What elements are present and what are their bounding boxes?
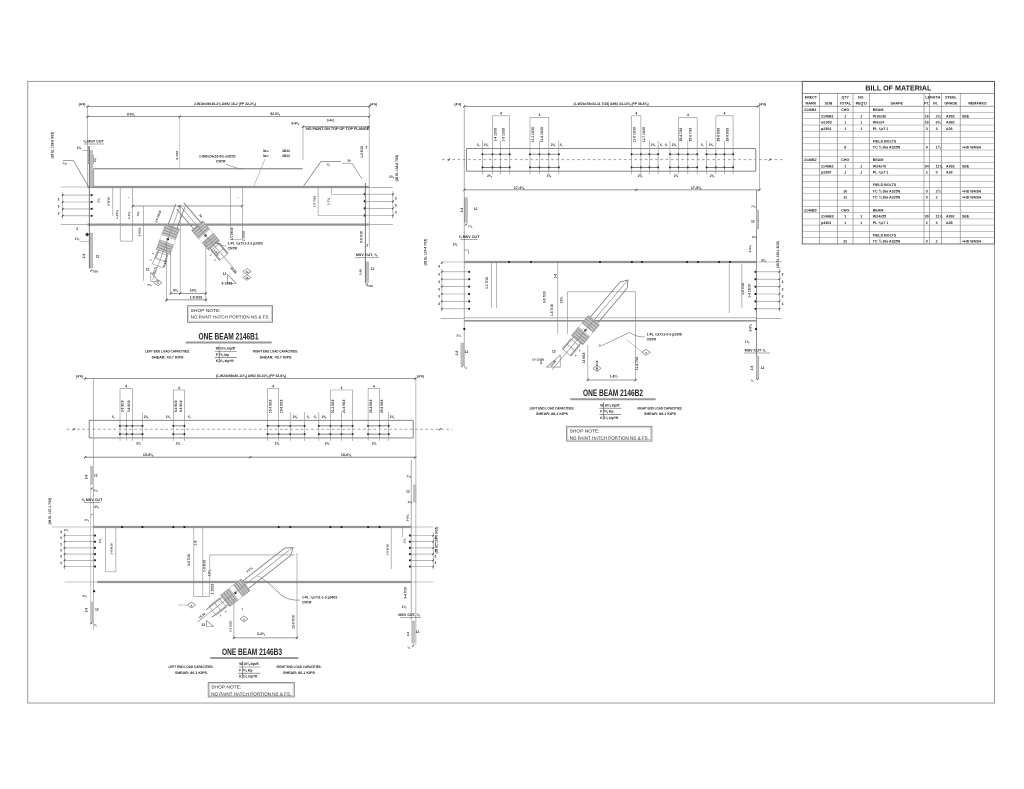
svg-text:15-2 9/16: 15-2 9/16 bbox=[269, 399, 273, 413]
svg-text:⅜ MSV CUT: ⅜ MSV CUT bbox=[82, 498, 103, 502]
svg-text:25-6 7/16: 25-6 7/16 bbox=[689, 128, 693, 142]
svg-text:3-8 9/16: 3-8 9/16 bbox=[127, 400, 131, 412]
svg-text:2⅜: 2⅜ bbox=[761, 259, 766, 263]
svg-text:BILL OF MATERIAL: BILL OF MATERIAL bbox=[865, 83, 931, 92]
svg-text:7/16: 7/16 bbox=[92, 270, 98, 274]
svg-text:2146B3: 2146B3 bbox=[821, 215, 834, 219]
svg-text:⅜ MSV CUT: ⅜ MSV CUT bbox=[459, 235, 480, 239]
svg-text:12: 12 bbox=[223, 272, 227, 276]
svg-text:(39 EL 136-1 9/16): (39 EL 136-1 9/16) bbox=[776, 241, 780, 268]
svg-text:1: 1 bbox=[844, 164, 846, 168]
svg-text:7⅜: 7⅜ bbox=[93, 489, 98, 493]
svg-text:SHEAR: 86.1 KIPS: SHEAR: 86.1 KIPS bbox=[175, 671, 208, 675]
svg-text:2 15/16: 2 15/16 bbox=[211, 583, 215, 594]
svg-text:b: b bbox=[243, 617, 245, 621]
svg-text:1: 1 bbox=[860, 171, 862, 175]
svg-text:TOTAL: TOTAL bbox=[839, 101, 851, 105]
svg-text:TC ¾ Dia A325N: TC ¾ Dia A325N bbox=[873, 196, 901, 200]
svg-text:2: 2 bbox=[936, 196, 938, 200]
svg-text:29-9 9/16: 29-9 9/16 bbox=[726, 128, 730, 142]
svg-text:21-6 9/16: 21-6 9/16 bbox=[342, 399, 346, 413]
svg-text:2⅜: 2⅜ bbox=[94, 505, 99, 509]
svg-text:4: 4 bbox=[687, 113, 689, 117]
svg-text:CHG: CHG bbox=[841, 108, 849, 112]
svg-text:2: 2 bbox=[936, 240, 938, 244]
svg-text:⅝: ⅝ bbox=[660, 143, 663, 147]
svg-text:ERECT: ERECT bbox=[805, 96, 818, 100]
svg-text:2146B2: 2146B2 bbox=[804, 158, 817, 162]
svg-text:2-6: 2-6 bbox=[750, 365, 754, 370]
svg-text:A992: A992 bbox=[946, 121, 955, 125]
svg-text:LEFT END LOAD CAPACITIES:: LEFT END LOAD CAPACITIES: bbox=[169, 665, 214, 669]
svg-text:2-2⅜: 2-2⅜ bbox=[257, 632, 266, 636]
svg-text:1: 1 bbox=[844, 114, 846, 118]
svg-text:2⅜: 2⅜ bbox=[672, 143, 677, 147]
svg-text:SHOP NOTE:: SHOP NOTE: bbox=[211, 685, 241, 691]
svg-text:SHOP NOTE:: SHOP NOTE: bbox=[570, 429, 600, 435]
svg-text:16: 16 bbox=[925, 121, 929, 125]
svg-text:⅝: ⅝ bbox=[307, 415, 310, 419]
svg-text:12: 12 bbox=[201, 623, 205, 627]
svg-text:F 7⅜ kip: F 7⅜ kip bbox=[600, 410, 613, 414]
svg-text:1-6: 1-6 bbox=[194, 540, 198, 545]
svg-text:1-0 9/16: 1-0 9/16 bbox=[386, 544, 390, 556]
svg-text:6 9/16: 6 9/16 bbox=[138, 227, 142, 236]
svg-text:W6x24: W6x24 bbox=[873, 121, 884, 125]
svg-text:11-7 13/16: 11-7 13/16 bbox=[642, 127, 646, 142]
svg-text:SHEAR: 43.7 KIPS: SHEAR: 43.7 KIPS bbox=[152, 355, 185, 359]
svg-text:MSV CUT, ⅜: MSV CUT, ⅜ bbox=[398, 613, 420, 617]
svg-text:2⅜: 2⅜ bbox=[64, 528, 69, 532]
svg-text:1⅜: 1⅜ bbox=[77, 146, 82, 150]
svg-text:4: 4 bbox=[724, 112, 726, 116]
svg-text:2: 2 bbox=[926, 221, 928, 225]
svg-text:(38 EL 128-0 9/16): (38 EL 128-0 9/16) bbox=[435, 527, 439, 554]
svg-text:3-6 9/16: 3-6 9/16 bbox=[121, 400, 125, 412]
svg-text:12: 12 bbox=[95, 608, 99, 612]
svg-text:SHEAR: 88.1 KIPS: SHEAR: 88.1 KIPS bbox=[644, 412, 677, 416]
svg-text:BEAM: BEAM bbox=[873, 108, 884, 112]
svg-text:1-0 13/16: 1-0 13/16 bbox=[748, 284, 752, 298]
svg-text:NO PAINT HATCH PORTION NS & FS: NO PAINT HATCH PORTION NS & FS. bbox=[191, 315, 270, 321]
svg-text:2⅜: 2⅜ bbox=[403, 538, 407, 543]
svg-text:3: 3 bbox=[438, 273, 440, 277]
svg-text:3: 3 bbox=[782, 287, 784, 291]
svg-text:15-5⅜: 15-5⅜ bbox=[143, 453, 154, 457]
svg-text:12: 12 bbox=[416, 630, 420, 634]
svg-text:12: 12 bbox=[94, 474, 98, 478]
svg-text:3: 3 bbox=[782, 273, 784, 277]
svg-text:ONE BEAM 2146B2: ONE BEAM 2146B2 bbox=[583, 388, 643, 398]
svg-text:2-6: 2-6 bbox=[82, 253, 86, 258]
svg-text:7⅜: 7⅜ bbox=[147, 283, 152, 287]
svg-text:SHAPE: SHAPE bbox=[891, 101, 904, 105]
svg-text:12: 12 bbox=[371, 267, 375, 271]
svg-text:A992: A992 bbox=[946, 164, 955, 168]
svg-text:2⅜: 2⅜ bbox=[275, 442, 280, 446]
svg-text:3: 3 bbox=[782, 295, 784, 299]
svg-text:4: 4 bbox=[635, 112, 637, 116]
svg-text:3⅝: 3⅝ bbox=[136, 211, 140, 216]
svg-text:1⅜: 1⅜ bbox=[402, 605, 407, 609]
svg-text:12: 12 bbox=[751, 220, 755, 224]
svg-text:1: 1 bbox=[860, 221, 862, 225]
svg-text:3: 3 bbox=[435, 561, 437, 565]
svg-text:1: 1 bbox=[860, 114, 862, 118]
svg-text:2⅜: 2⅜ bbox=[293, 415, 298, 419]
svg-text:1: 1 bbox=[844, 215, 846, 219]
svg-text:26: 26 bbox=[843, 190, 847, 194]
svg-text:2-6: 2-6 bbox=[406, 631, 410, 636]
svg-text:7/16: 7/16 bbox=[367, 284, 373, 288]
svg-text:2⅜: 2⅜ bbox=[547, 174, 552, 178]
svg-text:2⅜: 2⅜ bbox=[551, 143, 556, 147]
svg-text:1-PL ⅜x7x1-2-3 p2303: 1-PL ⅜x7x1-2-3 p2303 bbox=[228, 242, 263, 246]
svg-text:(4'4): (4'4) bbox=[79, 102, 86, 106]
svg-text:2-6: 2-6 bbox=[85, 607, 89, 612]
svg-text:1-2⅜: 1-2⅜ bbox=[127, 212, 131, 219]
svg-text:1: 1 bbox=[860, 215, 862, 219]
svg-text:4: 4 bbox=[438, 265, 440, 269]
svg-text:2⅜: 2⅜ bbox=[372, 442, 377, 446]
svg-text:34: 34 bbox=[925, 164, 929, 168]
svg-text:1-PL ⅜x7x1-1-3 p3403: 1-PL ⅜x7x1-1-3 p3403 bbox=[302, 596, 337, 600]
svg-text:2⅜: 2⅜ bbox=[82, 594, 87, 598]
svg-text:+HD WASH: +HD WASH bbox=[962, 240, 981, 244]
svg-text:(39 EL 138-8 7/16): (39 EL 138-8 7/16) bbox=[395, 155, 399, 182]
svg-text:NO.: NO. bbox=[858, 96, 864, 100]
svg-text:16: 16 bbox=[925, 114, 929, 118]
svg-text:17-4⅜: 17-4⅜ bbox=[514, 186, 525, 190]
svg-text:IN.: IN. bbox=[933, 101, 938, 105]
svg-text:3-4⅜: 3-4⅜ bbox=[291, 121, 299, 125]
svg-text:2⅜: 2⅜ bbox=[709, 143, 714, 147]
svg-text:CNTR: CNTR bbox=[302, 601, 312, 605]
svg-text:A36: A36 bbox=[946, 171, 953, 175]
svg-text:(39 EL 138-8 9/16): (39 EL 138-8 9/16) bbox=[51, 132, 55, 159]
svg-text:3Ø12: 3Ø12 bbox=[282, 149, 290, 153]
svg-text:BEAM: BEAM bbox=[873, 208, 884, 212]
svg-text:3: 3 bbox=[60, 536, 62, 540]
svg-text:3: 3 bbox=[60, 542, 62, 546]
svg-text:1: 1 bbox=[844, 171, 846, 175]
svg-text:3: 3 bbox=[58, 198, 60, 202]
svg-text:SHEAR: 86.1 KIPS: SHEAR: 86.1 KIPS bbox=[283, 671, 316, 675]
svg-text:2⅜: 2⅜ bbox=[752, 235, 757, 239]
svg-text:⅝: ⅝ bbox=[701, 143, 704, 147]
svg-text:8 13/16: 8 13/16 bbox=[222, 282, 233, 286]
svg-text:29-8 9/16: 29-8 9/16 bbox=[717, 128, 721, 142]
svg-text:3: 3 bbox=[60, 555, 62, 559]
svg-text:CNTR: CNTR bbox=[216, 160, 226, 164]
svg-text:⅝: ⅝ bbox=[314, 415, 317, 419]
svg-text:SHEAR: 88.1 KIPS: SHEAR: 88.1 KIPS bbox=[536, 412, 569, 416]
svg-text:1⅜: 1⅜ bbox=[75, 237, 80, 241]
svg-text:(4'4): (4'4) bbox=[370, 102, 377, 106]
svg-text:2⅜: 2⅜ bbox=[408, 500, 413, 504]
svg-text:2⅜: 2⅜ bbox=[710, 174, 715, 178]
svg-text:25-6 9/16: 25-6 9/16 bbox=[380, 399, 384, 413]
svg-text:w1903: w1903 bbox=[820, 121, 832, 125]
svg-text:1: 1 bbox=[860, 121, 862, 125]
svg-text:11-6 13/16: 11-6 13/16 bbox=[633, 127, 637, 142]
svg-text:RIGHT END LOAD CAPACITIES:: RIGHT END LOAD CAPACITIES: bbox=[253, 350, 298, 354]
svg-text:25-4 7/16: 25-4 7/16 bbox=[679, 128, 683, 142]
svg-text:1-6 7/16: 1-6 7/16 bbox=[550, 304, 554, 316]
svg-text:CHG: CHG bbox=[841, 158, 849, 162]
svg-text:12: 12 bbox=[552, 349, 556, 353]
svg-text:LENGTH: LENGTH bbox=[925, 96, 940, 100]
svg-text:2: 2 bbox=[926, 171, 928, 175]
svg-text:2⅜: 2⅜ bbox=[484, 143, 489, 147]
svg-text:LEFT END LOAD CAPACITIES:: LEFT END LOAD CAPACITIES: bbox=[530, 406, 575, 410]
svg-text:1⅜: 1⅜ bbox=[84, 518, 89, 522]
svg-text:(4'4): (4'4) bbox=[76, 375, 83, 379]
svg-text:SEE: SEE bbox=[962, 215, 970, 219]
svg-text:4: 4 bbox=[341, 386, 343, 390]
svg-text:3: 3 bbox=[58, 204, 60, 208]
svg-text:7⅜: 7⅜ bbox=[751, 205, 756, 209]
svg-text:MSV CUT ⅜: MSV CUT ⅜ bbox=[745, 349, 767, 353]
svg-text:13 9/16: 13 9/16 bbox=[582, 352, 586, 363]
svg-text:FIELD BOLTS: FIELD BOLTS bbox=[873, 139, 897, 143]
svg-text:1-1 7/16: 1-1 7/16 bbox=[485, 277, 489, 289]
svg-text:2: 2 bbox=[366, 146, 368, 150]
svg-text:1-5 13/16: 1-5 13/16 bbox=[502, 128, 506, 142]
svg-text:W16x36: W16x36 bbox=[873, 114, 886, 118]
svg-text:7b: 7b bbox=[245, 276, 248, 280]
svg-text:12: 12 bbox=[474, 207, 478, 211]
svg-text:2 15/16: 2 15/16 bbox=[242, 231, 246, 242]
svg-text:4: 4 bbox=[76, 227, 78, 231]
svg-text:52-0⅜: 52-0⅜ bbox=[270, 112, 281, 116]
svg-text:NO PAINT HATCH PORTION NS & FS: NO PAINT HATCH PORTION NS & FS. bbox=[211, 692, 291, 698]
svg-text:2: 2 bbox=[366, 244, 368, 248]
svg-text:5-6 7/16: 5-6 7/16 bbox=[359, 231, 363, 243]
svg-text:SEE: SEE bbox=[962, 164, 970, 168]
svg-text:1-6 7/16: 1-6 7/16 bbox=[741, 283, 745, 295]
svg-text:1-5 7/16: 1-5 7/16 bbox=[312, 196, 316, 208]
svg-text:3: 3 bbox=[438, 280, 440, 284]
svg-text:3: 3 bbox=[782, 302, 784, 306]
svg-text:4: 4 bbox=[125, 384, 127, 388]
svg-text:A36: A36 bbox=[946, 221, 953, 225]
svg-text:12: 12 bbox=[761, 366, 765, 370]
svg-text:7⅜: 7⅜ bbox=[468, 225, 473, 229]
svg-text:p2303: p2303 bbox=[821, 127, 831, 131]
svg-text:17-5⅜: 17-5⅜ bbox=[691, 186, 702, 190]
svg-text:4: 4 bbox=[538, 113, 540, 117]
svg-text:8: 8 bbox=[844, 146, 846, 150]
svg-text:PL ⅜x7 1: PL ⅜x7 1 bbox=[873, 127, 889, 131]
svg-text:REMARKS: REMARKS bbox=[968, 101, 987, 105]
svg-text:2146B1: 2146B1 bbox=[804, 108, 817, 112]
svg-text:▪: ▪ bbox=[238, 197, 239, 200]
svg-text:1-1 15/16: 1-1 15/16 bbox=[230, 227, 234, 240]
svg-text:p2306: p2306 bbox=[821, 171, 831, 175]
svg-text:1: 1 bbox=[844, 121, 846, 125]
svg-text:2⅜: 2⅜ bbox=[456, 334, 461, 338]
svg-text:3-6 7/16: 3-6 7/16 bbox=[187, 554, 191, 566]
svg-text:2146B2: 2146B2 bbox=[821, 164, 834, 168]
svg-text:MARK: MARK bbox=[806, 101, 817, 105]
svg-text:12: 12 bbox=[146, 268, 150, 272]
svg-text:FIELD BOLTS: FIELD BOLTS bbox=[873, 233, 897, 237]
svg-text:9-6 9/16: 9-6 9/16 bbox=[179, 400, 183, 412]
svg-text:PL ⅜x7 1: PL ⅜x7 1 bbox=[873, 221, 889, 225]
svg-text:2⅜: 2⅜ bbox=[322, 415, 327, 419]
svg-text:9-0⅜: 9-0⅜ bbox=[127, 112, 136, 116]
svg-text:1: 1 bbox=[860, 164, 862, 168]
svg-text:1-8 9/16: 1-8 9/16 bbox=[190, 295, 203, 299]
svg-text:30: 30 bbox=[925, 215, 929, 219]
svg-text:11-1 13/16: 11-1 13/16 bbox=[531, 127, 535, 142]
svg-text:2⅜: 2⅜ bbox=[325, 442, 330, 446]
svg-text:⅝: ⅝ bbox=[665, 143, 668, 147]
svg-text:(4'4): (4'4) bbox=[454, 102, 461, 106]
svg-text:11-4 7/16: 11-4 7/16 bbox=[635, 357, 639, 371]
svg-text:2-W16x36x16-2⅜ A992 16-2 (FP 3: 2-W16x36x16-2⅜ A992 16-2 (FP 32-2⅜) bbox=[194, 102, 256, 106]
svg-text:K 1⅛ kip²/ft: K 1⅛ kip²/ft bbox=[600, 416, 619, 420]
svg-text:(1-W24x76x34-11 7/16) A992 34-: (1-W24x76x34-11 7/16) A992 34-10⅜ (FP 36… bbox=[573, 102, 648, 106]
svg-text:SEE: SEE bbox=[962, 114, 970, 118]
svg-text:0: 0 bbox=[926, 190, 928, 194]
svg-text:9⅜: 9⅜ bbox=[539, 359, 543, 364]
svg-text:1-4 13/16: 1-4 13/16 bbox=[493, 128, 497, 142]
svg-text:¾a: ¾a bbox=[62, 162, 67, 166]
svg-text:12: 12 bbox=[465, 350, 469, 354]
svg-text:QTY: QTY bbox=[842, 96, 850, 100]
svg-text:3-6⅝: 3-6⅝ bbox=[406, 514, 410, 521]
svg-text:STEEL: STEEL bbox=[945, 96, 957, 100]
svg-text:7⅜: 7⅜ bbox=[407, 475, 412, 479]
svg-text:⅝: ⅝ bbox=[188, 415, 191, 419]
svg-text:4: 4 bbox=[373, 384, 375, 388]
svg-text:SUB: SUB bbox=[825, 101, 833, 105]
svg-text:K 1⅛ kip²/ft: K 1⅛ kip²/ft bbox=[239, 675, 258, 679]
svg-text:PL ⅜x7 1: PL ⅜x7 1 bbox=[873, 171, 889, 175]
svg-text:3-6⅝: 3-6⅝ bbox=[748, 245, 752, 252]
svg-text:3: 3 bbox=[438, 302, 440, 306]
svg-text:12: 12 bbox=[96, 255, 100, 259]
svg-text:3-4 7/16: 3-4 7/16 bbox=[404, 587, 408, 599]
svg-text:RIGHT END LOAD CAPACITIES:: RIGHT END LOAD CAPACITIES: bbox=[638, 406, 683, 410]
svg-text:4: 4 bbox=[178, 386, 180, 390]
svg-text:SHOP NOTE:: SHOP NOTE: bbox=[191, 308, 221, 314]
svg-text:(39 EL 137-4 7/16): (39 EL 137-4 7/16) bbox=[424, 239, 428, 266]
svg-text:RIGHT END LOAD CAPACITIES:: RIGHT END LOAD CAPACITIES: bbox=[277, 665, 322, 669]
svg-text:0: 0 bbox=[926, 146, 928, 150]
svg-text:3: 3 bbox=[395, 197, 397, 201]
svg-text:W24x76: W24x76 bbox=[873, 164, 886, 168]
svg-text:2⅜: 2⅜ bbox=[453, 243, 458, 247]
svg-text:9 7/16: 9 7/16 bbox=[175, 151, 179, 160]
svg-text:25-4 9/16: 25-4 9/16 bbox=[369, 399, 373, 413]
svg-text:NO PAINT HATCH PORTION NS & FS: NO PAINT HATCH PORTION NS & FS. bbox=[570, 435, 649, 441]
svg-text:1-8¼: 1-8¼ bbox=[610, 374, 619, 378]
svg-text:2⅜: 2⅜ bbox=[136, 442, 141, 446]
svg-text:CNTR: CNTR bbox=[647, 338, 657, 342]
svg-text:+HD WASH: +HD WASH bbox=[962, 190, 981, 194]
svg-text:10⅝: 10⅝ bbox=[190, 289, 198, 293]
svg-text:F 7⅜ kip: F 7⅜ kip bbox=[239, 668, 252, 672]
svg-text:+HD WASH: +HD WASH bbox=[962, 196, 981, 200]
svg-text:2⅜: 2⅜ bbox=[144, 415, 149, 419]
svg-text:3: 3 bbox=[438, 295, 440, 299]
svg-text:3-6⅝: 3-6⅝ bbox=[749, 324, 753, 332]
svg-text:2⅜: 2⅜ bbox=[674, 174, 679, 178]
svg-text:2-6: 2-6 bbox=[460, 207, 464, 212]
svg-text:SHEAR: 43.7 KIPS: SHEAR: 43.7 KIPS bbox=[260, 355, 293, 359]
svg-text:p3403: p3403 bbox=[821, 221, 831, 225]
svg-text:11⅜: 11⅜ bbox=[936, 215, 944, 219]
svg-text:GRADE: GRADE bbox=[944, 101, 958, 105]
svg-text:15-6 9/16: 15-6 9/16 bbox=[280, 399, 284, 413]
svg-text:ONE BEAM 2146B1: ONE BEAM 2146B1 bbox=[199, 331, 259, 341]
svg-text:4: 4 bbox=[60, 530, 62, 534]
svg-text:1-W6x24x16-6⅝ w/STD: 1-W6x24x16-6⅝ w/STD bbox=[199, 155, 236, 159]
svg-text:0: 0 bbox=[926, 240, 928, 244]
svg-text:13-0 7/16: 13-0 7/16 bbox=[292, 615, 296, 629]
svg-text:2-6: 2-6 bbox=[455, 350, 459, 355]
svg-text:b: b bbox=[596, 367, 598, 371]
svg-text:1-0 9/16: 1-0 9/16 bbox=[110, 543, 114, 555]
svg-text:2⅜: 2⅜ bbox=[389, 175, 394, 179]
svg-text:1-0 5/16: 1-0 5/16 bbox=[360, 146, 364, 158]
svg-text:3: 3 bbox=[395, 204, 397, 208]
svg-text:2146B1: 2146B1 bbox=[821, 114, 834, 118]
svg-text:4: 4 bbox=[500, 112, 502, 116]
svg-text:3-6 7/16: 3-6 7/16 bbox=[543, 291, 547, 303]
svg-text:2⅜: 2⅜ bbox=[166, 415, 171, 419]
svg-text:1-0 9/16: 1-0 9/16 bbox=[228, 621, 232, 632]
svg-text:(38 EL 127-1 7/16): (38 EL 127-1 7/16) bbox=[48, 498, 52, 525]
svg-text:4: 4 bbox=[936, 221, 938, 225]
svg-text:0: 0 bbox=[936, 171, 938, 175]
svg-text:1⅜: 1⅜ bbox=[745, 340, 750, 344]
svg-text:22: 22 bbox=[843, 240, 847, 244]
svg-text:3: 3 bbox=[438, 287, 440, 291]
svg-text:2-6: 2-6 bbox=[85, 474, 89, 479]
svg-text:15-6⅜: 15-6⅜ bbox=[341, 453, 352, 457]
svg-text:1-PL ⅜x7x1-0-3 p2306: 1-PL ⅜x7x1-0-3 p2306 bbox=[647, 333, 682, 337]
svg-text:(4'4): (4'4) bbox=[417, 375, 424, 379]
svg-text:1-6: 1-6 bbox=[554, 274, 558, 279]
svg-text:4: 4 bbox=[272, 384, 274, 388]
svg-text:ONE BEAM 2146B3: ONE BEAM 2146B3 bbox=[222, 647, 282, 657]
svg-text:1: 1 bbox=[844, 221, 846, 225]
svg-text:1-0 9/16: 1-0 9/16 bbox=[203, 560, 207, 572]
svg-text:TC ¾ Dia A325N: TC ¾ Dia A325N bbox=[873, 146, 901, 150]
svg-text:REQ'D: REQ'D bbox=[856, 101, 868, 105]
svg-text:A36: A36 bbox=[946, 127, 953, 131]
svg-text:2⅜: 2⅜ bbox=[98, 538, 102, 543]
svg-text:12: 12 bbox=[406, 489, 410, 493]
svg-text:5.45: 5.45 bbox=[359, 269, 363, 275]
svg-text:2⅜: 2⅜ bbox=[93, 157, 97, 162]
svg-text:MSV CUT, ⅜: MSV CUT, ⅜ bbox=[356, 253, 378, 257]
svg-text:1: 1 bbox=[860, 127, 862, 131]
svg-text:LEFT END LOAD CAPACITIES:: LEFT END LOAD CAPACITIES: bbox=[145, 350, 190, 354]
svg-text:11⅝: 11⅝ bbox=[936, 164, 944, 168]
svg-text:▪: ▪ bbox=[128, 197, 129, 200]
svg-text:W24x55: W24x55 bbox=[873, 215, 886, 219]
svg-text:+HD WASH: +HD WASH bbox=[962, 146, 981, 150]
svg-text:3: 3 bbox=[936, 127, 938, 131]
svg-text:BEAM: BEAM bbox=[873, 158, 884, 162]
svg-text:3: 3 bbox=[435, 555, 437, 559]
svg-text:2⅜: 2⅜ bbox=[487, 174, 492, 178]
